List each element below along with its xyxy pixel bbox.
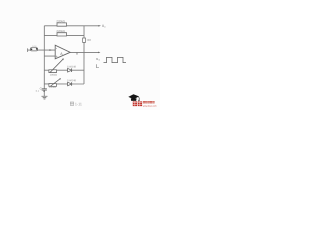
svg-text:100kΩ: 100kΩ — [49, 86, 56, 89]
svg-text:100kΩ: 100kΩ — [50, 74, 57, 77]
svg-text:1N4148: 1N4148 — [67, 79, 76, 82]
svg-text:C: C — [40, 86, 42, 90]
svg-text:1-11: 1-11 — [75, 102, 82, 106]
svg-text:1kΩ: 1kΩ — [87, 39, 92, 42]
svg-text:220kΩ: 220kΩ — [56, 29, 65, 33]
svg-text:1N4148: 1N4148 — [67, 65, 76, 68]
svg-text:+: + — [56, 55, 58, 59]
svg-text:www.dzsc.com: www.dzsc.com — [143, 105, 157, 108]
svg-text:220kΩ: 220kΩ — [56, 19, 65, 23]
